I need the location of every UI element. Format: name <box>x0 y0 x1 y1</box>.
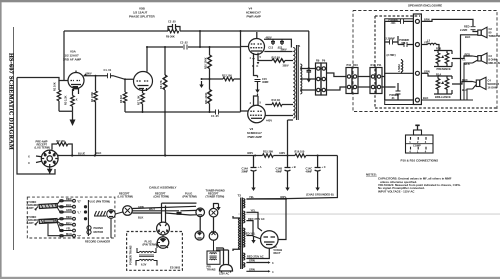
x=309 B+ down / T1 sec common <box>307 31 312 76</box>
resistor R12 100 <box>223 77 234 81</box>
capacitor C4 .05 <box>216 110 219 115</box>
svg-text:(CHAS GROUNDED-B): (CHAS GROUNDED-B) <box>306 193 334 197</box>
resistor R13 1K <box>272 59 285 63</box>
V4 screen R13 <box>264 51 292 53</box>
svg-text:(2.7MF): (2.7MF) <box>387 53 396 57</box>
T2 left winding primary <box>233 216 240 251</box>
svg-text:4: 4 <box>272 270 274 274</box>
svg-text:TRANS: TRANS <box>207 268 216 272</box>
crossover network wiring <box>385 21 414 100</box>
svg-text:3RD AF AMP: 3RD AF AMP <box>63 58 81 62</box>
svg-text:X: X <box>28 161 30 165</box>
svg-text:BRILLIANCE: BRILLIANCE <box>435 95 451 99</box>
capacitor C3 .02 <box>184 45 187 50</box>
V4 plate line <box>264 39 291 47</box>
resistor brilliance A <box>436 79 440 90</box>
svg-text:P11: P11 <box>377 63 382 67</box>
svg-text:+ C: + C <box>322 165 326 169</box>
connector pair P10/R10 <box>370 68 382 94</box>
svg-text:YEL: YEL <box>66 227 71 231</box>
capacitor 750MMF top <box>401 19 404 24</box>
svg-text:20MF: 20MF <box>242 170 249 174</box>
svg-text:PWR AMP: PWR AMP <box>248 135 262 139</box>
T2 wires to rectifier <box>246 199 286 273</box>
svg-text:R10: R10 <box>353 63 358 67</box>
capacitor C14A 20MF <box>251 156 257 185</box>
svg-text:.001: .001 <box>401 41 407 45</box>
recept lug term circle <box>123 206 133 216</box>
svg-text:NOTES:: NOTES: <box>366 173 377 177</box>
svg-text:8 OHM: 8 OHM <box>489 58 497 62</box>
svg-text:MOTOR: MOTOR <box>94 230 104 234</box>
svg-text:R1B: R1B <box>436 47 441 51</box>
svg-text:PHASE SPLITTER: PHASE SPLITTER <box>129 15 156 19</box>
resistor R10 100K <box>208 55 212 69</box>
bus y=47 <box>147 46 241 48</box>
svg-text:X: X <box>28 155 30 159</box>
svg-text:460V: 460V <box>247 151 253 155</box>
svg-text:CABLE ASSEMBLY: CABLE ASSEMBLY <box>149 186 176 190</box>
speaker terminal strip <box>413 14 421 105</box>
phono motor <box>87 226 91 235</box>
svg-text:CART: CART <box>27 221 35 225</box>
svg-text:MAG: MAG <box>66 232 72 236</box>
T1 lead stubs <box>285 61 302 121</box>
svg-text:GRN: GRN <box>138 205 144 209</box>
svg-text:BLK: BLK <box>462 88 467 92</box>
svg-text:CART: CART <box>27 206 35 210</box>
svg-text:RED 375V AC: RED 375V AC <box>248 217 265 221</box>
svg-text:PHONO: PHONO <box>94 226 104 230</box>
power trans dashed box <box>127 232 183 271</box>
recept cho term circle <box>157 222 170 236</box>
svg-text:COMP: COMP <box>413 144 421 148</box>
cartridge 2 <box>35 219 58 226</box>
svg-text:MID-RANGE: MID-RANGE <box>489 61 500 65</box>
B+ top bus y=31 <box>64 30 309 32</box>
svg-text:R8 47K: R8 47K <box>159 80 163 89</box>
resistor R2 100 <box>57 142 68 146</box>
svg-text:POWER TRANS: POWER TRANS <box>129 245 133 265</box>
presence pot network <box>434 51 473 101</box>
svg-text:R13 1K: R13 1K <box>272 55 281 59</box>
capacitor 2.2MMF <box>390 40 393 45</box>
svg-text:R12 100: R12 100 <box>222 74 232 78</box>
svg-text:R11: R11 <box>371 63 376 67</box>
svg-text:BRN: BRN <box>424 18 430 22</box>
resistor R11 220K <box>208 90 212 104</box>
svg-text:PLUG (PIN TERM): PLUG (PIN TERM) <box>88 200 110 204</box>
pre-amp recept R2 link <box>52 144 72 156</box>
grid x=240.5 vertical <box>240 47 242 112</box>
svg-text:RED: RED <box>66 215 72 219</box>
svg-text:C2: C2 <box>489 27 493 31</box>
svg-text:C4: C4 <box>488 79 492 83</box>
svg-text:C13: C13 <box>268 45 273 49</box>
speaker SP2 mid-range <box>473 53 488 64</box>
svg-text:"T": "T" <box>77 234 82 238</box>
svg-text:R11 220K: R11 220K <box>204 92 208 104</box>
svg-text:5: 5 <box>260 101 262 105</box>
svg-text:ES-3903: ES-3903 <box>170 266 181 270</box>
V5B cathode <box>142 91 144 113</box>
svg-text:YEL: YEL <box>251 209 256 213</box>
svg-text:RECORD CHANGER: RECORD CHANGER <box>85 240 110 244</box>
plug circle inside power trans box <box>157 237 169 249</box>
V3 plate line <box>265 115 293 117</box>
svg-text:RED 375V AC: RED 375V AC <box>247 255 264 259</box>
svg-text:4: 4 <box>250 101 252 105</box>
series cap 2.2MF at tweeter <box>471 27 476 30</box>
changer switch + plug <box>84 200 122 238</box>
svg-text:K: K <box>257 64 259 68</box>
svg-text:R9 36K: R9 36K <box>166 35 175 39</box>
svg-text:.01: .01 <box>391 96 395 100</box>
svg-text:R2 100: R2 100 <box>56 139 65 143</box>
svg-text:462V: 462V <box>266 35 272 39</box>
svg-text:R3 2.2K: R3 2.2K <box>64 95 68 105</box>
svg-text:BLK: BLK <box>96 151 101 155</box>
svg-text:RED-YEL: RED-YEL <box>244 232 256 236</box>
svg-text:R9: R9 <box>316 59 320 63</box>
svg-text:HS-607 SCHEMATIC DIAGRAM: HS-607 SCHEMATIC DIAGRAM <box>8 53 14 150</box>
capacitor 750MMF bottom <box>396 91 401 94</box>
svg-text:+ B: + B <box>292 165 296 169</box>
svg-text:L1: L1 <box>463 58 467 62</box>
svg-text:R1A: R1A <box>436 72 441 76</box>
svg-text:C2 .05: C2 .05 <box>168 20 176 24</box>
svg-text:PWR AMP: PWR AMP <box>247 15 261 19</box>
svg-text:40MF: 40MF <box>262 80 269 84</box>
page scan border edges <box>0 0 500 2</box>
svg-text:T1: T1 <box>297 44 301 48</box>
svg-text:INPUT VOLTAGE - 115V AC: INPUT VOLTAGE - 115V AC <box>378 189 414 193</box>
inner dashed assembly boundary <box>375 16 497 108</box>
ground bus y=112 <box>125 111 241 113</box>
power trans windings <box>136 243 168 266</box>
R1 column <box>58 81 60 112</box>
svg-text:RED: RED <box>464 25 470 29</box>
svg-text:"E": "E" <box>77 199 82 203</box>
svg-text:P9: P9 <box>322 59 326 63</box>
svg-text:P10: P10 <box>347 63 352 67</box>
speaker SP1 tweeter <box>478 27 487 38</box>
svg-text:GRN: GRN <box>249 268 255 272</box>
vertical from T1 bottom to bus <box>287 120 289 156</box>
R6 column <box>124 79 126 112</box>
V4 cathode <box>254 54 273 78</box>
svg-text:BLK: BLK <box>465 62 470 66</box>
svg-text:RED: RED <box>462 78 468 82</box>
svg-text:GRN: GRN <box>424 69 430 73</box>
R3 column / V5A cathode <box>72 89 74 111</box>
tube V3 <box>248 105 266 123</box>
svg-text:"L": "L" <box>77 211 82 215</box>
resistor R6 1M <box>123 92 127 103</box>
T1 secondary winding <box>300 64 302 94</box>
svg-text:L2: L2 <box>427 39 431 43</box>
resistor presence B <box>445 53 449 63</box>
V3 screen R14 <box>265 104 293 106</box>
svg-text:C3 .02: C3 .02 <box>180 41 188 45</box>
coupling caps C13 near V4 plate <box>271 39 284 45</box>
V5A grid line <box>17 78 68 81</box>
resistor presence A <box>436 53 440 63</box>
resistor R14 1K <box>272 103 282 107</box>
transformer T1 <box>297 45 299 120</box>
svg-text:C4 .05: C4 .05 <box>211 114 219 118</box>
scan fold line right half <box>238 213 500 216</box>
svg-text:445V: 445V <box>266 119 272 123</box>
bottom B+ feed wire <box>247 156 338 200</box>
cartridge output contacts rows <box>48 199 75 237</box>
crossover network box <box>385 19 414 105</box>
resistor R3 2.2K <box>71 96 75 107</box>
V3 cathode <box>254 94 259 106</box>
svg-text:RED: RED <box>66 197 72 201</box>
svg-text:BLK: BLK <box>423 96 428 100</box>
left box edge <box>63 31 65 80</box>
resistor R7 1.5K <box>141 93 145 104</box>
svg-text:T2: T2 <box>238 194 242 198</box>
brilliance pot network <box>428 73 473 100</box>
svg-text:R4 220K: R4 220K <box>90 92 94 102</box>
svg-text:.022: .022 <box>277 45 283 49</box>
svg-text:3: 3 <box>272 261 274 265</box>
capacitor 750MMF mid <box>404 42 407 47</box>
tuner-phono recept circle <box>209 204 218 232</box>
svg-text:R16 100: R16 100 <box>295 150 305 154</box>
svg-text:X: X <box>76 98 78 102</box>
svg-text:YEL: YEL <box>249 195 254 199</box>
B+ bus y=155.5 <box>57 155 337 157</box>
capacitor C14C 40MF <box>315 156 321 185</box>
svg-text:RED: RED <box>465 53 471 57</box>
svg-text:4: 4 <box>250 56 252 60</box>
left margin rule <box>13 27 15 250</box>
V5B plate up <box>146 47 148 72</box>
connector pair P/R 2 <box>346 68 358 94</box>
tube V5B <box>134 72 153 92</box>
svg-text:R15 20K: R15 20K <box>263 150 273 154</box>
C2/R9 parallel RC on top bus <box>168 24 180 31</box>
svg-text:462V: 462V <box>280 195 286 199</box>
tube V6 rectifier <box>261 231 279 249</box>
svg-text:40MF: 40MF <box>306 170 313 174</box>
svg-text:115V AC: 115V AC <box>219 272 229 276</box>
connector pair P/R 1 <box>316 63 327 95</box>
svg-text:(TUNER TERM): (TUNER TERM) <box>206 194 225 198</box>
pre-amp receptacle socket <box>36 150 58 167</box>
resistor R16 <box>295 154 306 158</box>
svg-text:R1 10K: R1 10K <box>53 82 57 91</box>
record changer dashed box <box>27 197 115 238</box>
connector pair1-2-3 wires <box>327 73 347 90</box>
svg-text:90: 90 <box>489 31 492 35</box>
wire bundle to plug <box>132 203 196 223</box>
svg-text:(PIN TERM): (PIN TERM) <box>143 243 157 247</box>
ground symbols <box>70 120 76 127</box>
svg-text:BLUE: BLUE <box>78 152 85 156</box>
T1 secondary taps <box>300 79 316 90</box>
115V AC plug <box>216 248 233 273</box>
svg-text:R6 1M: R6 1M <box>119 95 123 103</box>
tube V5A <box>68 71 87 95</box>
svg-text:16 OHM: 16 OHM <box>488 86 498 90</box>
svg-text:BLK: BLK <box>138 215 143 219</box>
aux small transformer right <box>207 240 220 264</box>
svg-text:GRN: GRN <box>249 259 255 263</box>
svg-text:K: K <box>252 64 254 68</box>
svg-text:2.2MMF: 2.2MMF <box>386 37 396 41</box>
svg-text:6.3V: 6.3V <box>141 263 147 267</box>
svg-text:5: 5 <box>260 55 262 59</box>
resistor brilliance B <box>445 79 449 90</box>
svg-text:(LUG TERM): (LUG TERM) <box>35 146 50 150</box>
svg-text:1.5MH: 1.5MH <box>397 64 401 72</box>
svg-text:2.2MF: 2.2MF <box>460 28 468 32</box>
svg-text:40MF: 40MF <box>276 170 283 174</box>
V5A plate line to C1 to V5B <box>84 76 134 80</box>
svg-text:WOOFER: WOOFER <box>488 82 500 86</box>
plug pin term circle <box>196 208 205 231</box>
T1 primary winding <box>293 48 295 119</box>
svg-text:SPEAKER ENCLOSURE: SPEAKER ENCLOSURE <box>408 4 442 8</box>
tube V4 <box>249 32 265 65</box>
svg-text:WHT: WHT <box>149 207 155 211</box>
P10 and R10 connector pinout <box>406 125 434 153</box>
y=79 line gnd - R12 - V3 grid <box>202 78 241 80</box>
svg-text:+ A: + A <box>258 165 262 169</box>
svg-text:(LUG TERM): (LUG TERM) <box>118 194 133 198</box>
R8 column <box>164 47 166 156</box>
svg-text:(PIN TERM): (PIN TERM) <box>183 194 197 198</box>
svg-text:R7 1.5K: R7 1.5K <box>137 95 141 105</box>
resistor R1 10K <box>57 90 61 101</box>
svg-text:GRN: GRN <box>66 208 72 212</box>
svg-text:P10 & R10 CONNECTIONS: P10 & R10 CONNECTIONS <box>401 159 439 163</box>
inductor L 1.5MH vertical <box>402 60 403 73</box>
svg-text:R14 1K: R14 1K <box>272 98 281 102</box>
speaker enclosure dashed box <box>353 11 497 112</box>
lower connector circles <box>195 231 218 240</box>
wires strip to speakers <box>421 19 477 100</box>
svg-text:180V: 180V <box>86 72 92 76</box>
svg-text:TWEETER: TWEETER <box>489 34 500 38</box>
speaker SP3 woofer <box>473 77 487 89</box>
svg-text:C3: C3 <box>489 54 493 58</box>
R4 column <box>95 76 97 156</box>
svg-text:C1 .01: C1 .01 <box>104 68 112 72</box>
vertical feeds from top bus <box>199 31 201 47</box>
svg-text:BLU: BLU <box>66 221 71 225</box>
svg-text:.001: .001 <box>391 21 397 25</box>
resistor R15 <box>263 154 274 158</box>
cartridge 1 <box>35 204 58 211</box>
capacitor C15 cathode bypass <box>255 80 261 82</box>
svg-text:BLK: BLK <box>465 35 470 39</box>
svg-text:385V: 385V <box>283 63 289 67</box>
svg-text:PRESENCE: PRESENCE <box>437 67 452 71</box>
R10/R11 column <box>209 47 211 112</box>
svg-text:R10 100K: R10 100K <box>204 57 208 69</box>
capacitor C14B 40MF <box>285 156 291 185</box>
svg-text:BLK: BLK <box>66 203 71 207</box>
resistor R4 220K <box>94 91 98 102</box>
resistor R8 47K <box>163 75 167 90</box>
T2 right windings <box>243 199 245 268</box>
L2 coil <box>428 43 440 50</box>
svg-text:(CHO TERM): (CHO TERM) <box>154 194 170 198</box>
svg-text:RECT: RECT <box>274 251 281 255</box>
T2 core <box>241 198 243 270</box>
capacitor C1 .01 <box>108 73 111 78</box>
svg-text:440V: 440V <box>279 151 285 155</box>
ground below C15 <box>255 86 259 93</box>
